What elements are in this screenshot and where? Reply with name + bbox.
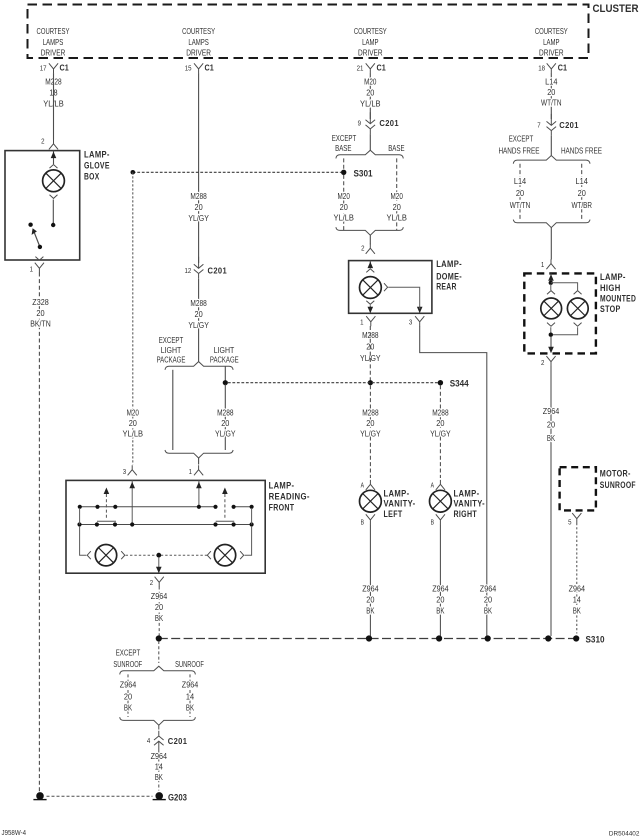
stop left bulb fork — [547, 291, 555, 295]
wire except base below splice — [343, 175, 345, 231]
svg-text:20: 20 — [221, 418, 229, 428]
svg-text:1: 1 — [360, 320, 363, 327]
svg-text:C201: C201 — [208, 265, 228, 275]
wire L14 vertical — [550, 73, 552, 119]
wire S344 horizontal — [228, 382, 438, 384]
svg-text:RIGHT: RIGHT — [454, 509, 478, 519]
svg-text:Z964: Z964 — [432, 584, 449, 594]
svg-text:LIGHT: LIGHT — [214, 345, 235, 355]
svg-text:WT/BR: WT/BR — [571, 200, 592, 210]
svg-text:12: 12 — [185, 268, 192, 275]
svg-text:20: 20 — [366, 88, 374, 98]
svg-text:LAMP: LAMP — [362, 37, 379, 47]
node dome on S344 — [368, 380, 373, 385]
svg-text:BOX: BOX — [84, 172, 100, 182]
svg-text:CLUSTER: CLUSTER — [593, 3, 639, 15]
svg-text:15: 15 — [185, 65, 192, 72]
lamp glove box outline — [5, 151, 80, 260]
svg-text:BK: BK — [155, 772, 163, 782]
glove box switch contact right — [51, 223, 55, 227]
svg-text:MOTOR-: MOTOR- — [600, 468, 631, 478]
reading right bulb left fork — [207, 551, 211, 559]
svg-text:B: B — [431, 519, 435, 526]
svg-text:YL/GY: YL/GY — [215, 429, 236, 439]
svg-text:DRIVER: DRIVER — [358, 48, 383, 58]
wire hands free branch — [581, 164, 583, 220]
svg-text:BK: BK — [155, 613, 163, 623]
reading left bulb — [95, 545, 116, 566]
svg-text:C1: C1 — [60, 63, 70, 72]
svg-text:C1: C1 — [377, 63, 387, 72]
svg-text:20: 20 — [393, 202, 401, 212]
svg-text:20: 20 — [36, 308, 44, 318]
svg-text:YL/LB: YL/LB — [123, 429, 144, 439]
splice S301 — [341, 170, 346, 175]
svg-text:LAMP-: LAMP- — [384, 489, 410, 499]
wire M20 vertical — [369, 73, 371, 119]
svg-text:1: 1 — [30, 267, 33, 274]
glove box exit fork — [35, 257, 43, 261]
svg-text:BK: BK — [547, 433, 555, 443]
stop right bulb — [567, 298, 588, 319]
wire M288 vertical lower — [198, 279, 200, 362]
reading switch bottom row contacts — [77, 522, 81, 526]
svg-text:YL/GY: YL/GY — [188, 320, 209, 330]
node S310 vanity left — [366, 635, 372, 641]
svg-text:Z964: Z964 — [182, 680, 199, 690]
reading ground node — [156, 553, 161, 558]
wire except light package branch — [172, 370, 174, 450]
hands free merge brace — [513, 220, 590, 228]
reading switch bottom row wire — [80, 524, 252, 526]
cluster module box (dashed) — [28, 5, 589, 59]
svg-text:20: 20 — [516, 188, 524, 198]
reading left wiper — [104, 488, 110, 495]
wire light package branch upper — [224, 366, 226, 381]
stop branch bottom wire — [551, 327, 578, 335]
glove box switch blade — [34, 232, 40, 247]
dome entry wire — [369, 261, 371, 268]
svg-text:18: 18 — [538, 65, 545, 72]
svg-text:BK: BK — [186, 702, 194, 712]
wire Z328 vertical — [38, 273, 40, 793]
lamp dome rear outline — [349, 261, 432, 314]
svg-text:Z328: Z328 — [32, 297, 49, 307]
svg-text:A: A — [431, 483, 435, 490]
svg-text:BASE: BASE — [388, 143, 405, 153]
base merge brace — [336, 227, 403, 235]
svg-text:LEFT: LEFT — [384, 509, 403, 519]
wire M288 branch vertical — [224, 384, 226, 450]
svg-text:REAR: REAR — [436, 282, 457, 292]
svg-text:20: 20 — [366, 595, 374, 605]
glove box lamp top fork — [50, 165, 58, 169]
svg-text:EXCEPT: EXCEPT — [159, 335, 184, 345]
svg-text:2: 2 — [361, 246, 364, 253]
svg-text:LAMP: LAMP — [543, 37, 560, 47]
svg-text:DRIVER: DRIVER — [41, 48, 66, 58]
wire M20 to reading lamp vertical — [132, 172, 134, 464]
svg-text:20: 20 — [155, 602, 163, 612]
svg-text:HIGH: HIGH — [600, 283, 621, 293]
light package split brace — [165, 362, 233, 370]
stop branch top wire — [551, 283, 578, 290]
svg-text:DRIVER: DRIVER — [539, 48, 564, 58]
wire to stop lamp pin 1 — [550, 228, 552, 260]
wire S344 to vanity right — [439, 385, 441, 478]
svg-text:LAMP-: LAMP- — [454, 489, 480, 499]
wire M288 vertical upper — [198, 73, 200, 263]
svg-text:14: 14 — [155, 762, 163, 772]
ground glove box — [36, 792, 44, 800]
wire to reading lamp pin 1 — [198, 458, 200, 465]
svg-text:HANDS FREE: HANDS FREE — [561, 146, 602, 156]
svg-text:LAMP-: LAMP- — [84, 150, 110, 160]
lamp reading front outline — [66, 480, 265, 573]
svg-text:YL/GY: YL/GY — [188, 213, 209, 223]
svg-text:2: 2 — [541, 360, 544, 367]
svg-text:B: B — [361, 519, 365, 526]
node S310 stop — [545, 635, 551, 641]
svg-text:EXCEPT: EXCEPT — [332, 133, 357, 143]
glove box bulb — [43, 170, 65, 192]
stop right bulb bottom fork — [574, 323, 582, 327]
dome lamp top fork — [366, 269, 374, 273]
svg-text:20: 20 — [436, 595, 444, 605]
wire M228 vertical — [53, 73, 55, 140]
svg-text:DRIVER: DRIVER — [186, 48, 211, 58]
wire base branch — [396, 158, 398, 230]
wire Z964 vanity left — [369, 524, 371, 636]
node light package on S344 — [223, 380, 228, 385]
svg-text:LAMP-: LAMP- — [269, 480, 295, 490]
svg-text:BK: BK — [573, 606, 581, 616]
wire below C201 pin 7 — [550, 136, 552, 156]
svg-text:G203: G203 — [168, 792, 187, 803]
node S310 dome — [485, 635, 491, 641]
stop left bulb — [541, 298, 562, 319]
lamp high mounted stop outline — [524, 273, 596, 353]
svg-text:14: 14 — [573, 595, 581, 605]
svg-text:9: 9 — [358, 121, 361, 128]
dome exit wire left — [369, 305, 371, 308]
vanity left bulb — [360, 490, 382, 512]
wire below C201 pin 9 — [369, 134, 371, 150]
svg-text:LAMP-: LAMP- — [600, 272, 626, 282]
svg-text:WT/TN: WT/TN — [510, 200, 531, 210]
svg-text:SUNROOF: SUNROOF — [600, 480, 636, 490]
svg-text:Z964: Z964 — [120, 680, 137, 690]
svg-text:YL/LB: YL/LB — [360, 99, 381, 109]
wire to dome lamp pin 2 — [369, 235, 371, 244]
splice S344 — [438, 380, 443, 385]
svg-text:EXCEPT: EXCEPT — [509, 134, 534, 144]
svg-text:1: 1 — [541, 262, 544, 269]
stop entry wire — [550, 273, 552, 281]
svg-text:C201: C201 — [379, 118, 399, 128]
svg-text:S310: S310 — [586, 635, 605, 646]
svg-text:STOP: STOP — [600, 304, 621, 314]
vanity right bulb — [430, 490, 452, 512]
svg-text:MOUNTED: MOUNTED — [600, 294, 636, 304]
svg-text:3: 3 — [409, 320, 412, 327]
light package merge brace — [165, 450, 233, 458]
svg-text:YL/LB: YL/LB — [333, 213, 354, 223]
svg-text:M288: M288 — [217, 407, 234, 417]
stop junction top — [549, 281, 553, 285]
svg-text:17: 17 — [40, 65, 47, 72]
dome bulb — [360, 277, 382, 299]
wire reading to S310 — [158, 587, 160, 637]
svg-text:20: 20 — [340, 202, 348, 212]
wire except sunroof branch — [127, 674, 129, 717]
svg-text:M20: M20 — [127, 407, 139, 417]
ground G203 — [155, 792, 163, 800]
svg-text:7: 7 — [537, 122, 540, 129]
svg-text:LAMPS: LAMPS — [43, 37, 64, 47]
svg-text:YL/GY: YL/GY — [430, 429, 451, 439]
svg-text:YL/GY: YL/GY — [360, 429, 381, 439]
reading ground exit wire — [158, 557, 160, 567]
svg-text:20: 20 — [547, 420, 555, 430]
svg-text:FRONT: FRONT — [269, 503, 295, 513]
svg-text:C201: C201 — [168, 736, 188, 746]
svg-text:Z964: Z964 — [543, 406, 560, 416]
svg-text:M20: M20 — [338, 191, 350, 201]
svg-text:BASE: BASE — [335, 143, 352, 153]
svg-text:20: 20 — [195, 309, 203, 319]
svg-text:20: 20 — [484, 595, 492, 605]
svg-text:C1: C1 — [558, 63, 568, 72]
svg-text:VANITY-: VANITY- — [384, 499, 416, 509]
svg-text:LAMP-: LAMP- — [436, 259, 462, 269]
wire Z964 vanity right — [439, 524, 441, 636]
wire to C201 pin 4 — [158, 725, 160, 729]
dome lamp right fork — [384, 283, 388, 291]
svg-text:COURTESY: COURTESY — [182, 26, 215, 36]
glove box switch blade pivot — [38, 245, 42, 249]
svg-text:PACKAGE: PACKAGE — [157, 354, 186, 364]
reading right bulb right fork — [240, 551, 244, 559]
reading entry wire pin 1 — [198, 480, 200, 506]
svg-text:M288: M288 — [190, 191, 207, 201]
svg-text:20: 20 — [366, 418, 374, 428]
motor sunroof outline — [560, 467, 596, 510]
wire dome pin1 to S344 — [369, 326, 371, 381]
svg-text:LAMPS: LAMPS — [188, 37, 209, 47]
glove box lamp bottom fork — [50, 195, 58, 199]
splice S310 — [573, 635, 579, 641]
svg-text:L14: L14 — [576, 176, 589, 186]
svg-text:LIGHT: LIGHT — [161, 345, 182, 355]
svg-text:Z964: Z964 — [362, 584, 379, 594]
glove box lamp to switch wire — [52, 200, 54, 225]
wire S310 down stub — [158, 641, 160, 663]
svg-text:BK: BK — [436, 606, 444, 616]
wire S310 horizontal — [159, 638, 576, 640]
svg-text:YL/LB: YL/LB — [386, 213, 407, 223]
reading lamps middle wire — [126, 554, 207, 556]
wire between grounds — [47, 795, 153, 797]
svg-text:M20: M20 — [364, 76, 376, 86]
wire Z964 from dome pin 3 — [420, 326, 487, 636]
svg-text:SUNROOF: SUNROOF — [113, 659, 142, 669]
base split brace — [336, 150, 403, 158]
svg-text:A: A — [361, 483, 365, 490]
svg-text:DOME-: DOME- — [436, 271, 462, 281]
svg-text:SUNROOF: SUNROOF — [175, 659, 204, 669]
reading switch top row contacts — [78, 505, 82, 509]
reading right side wire — [245, 508, 252, 555]
svg-text:J958W-4: J958W-4 — [2, 830, 27, 837]
sunroof merge brace — [120, 717, 196, 725]
svg-text:BK: BK — [484, 606, 492, 616]
svg-text:Z964: Z964 — [569, 584, 586, 594]
svg-text:GLOVE: GLOVE — [84, 161, 110, 171]
svg-text:S344: S344 — [450, 379, 470, 390]
glove box entry wire — [53, 151, 55, 164]
svg-text:20: 20 — [578, 188, 586, 198]
svg-text:HANDS FREE: HANDS FREE — [498, 146, 539, 156]
svg-text:DR504402: DR504402 — [609, 831, 640, 838]
svg-text:READING-: READING- — [269, 491, 310, 501]
stop junction bottom — [549, 333, 553, 337]
wire Z964 sunroof — [576, 523, 578, 634]
svg-text:3: 3 — [123, 469, 126, 476]
node S310 vanity right — [436, 635, 442, 641]
svg-text:PACKAGE: PACKAGE — [210, 354, 239, 364]
wire S344 to vanity left — [369, 385, 371, 478]
wire except base branch stub — [343, 158, 345, 169]
svg-text:COURTESY: COURTESY — [37, 26, 70, 36]
stop exit wire — [550, 337, 552, 348]
reading right wiper — [222, 488, 228, 495]
svg-text:Z964: Z964 — [480, 584, 497, 594]
svg-text:21: 21 — [357, 65, 364, 72]
svg-text:BK: BK — [366, 606, 374, 616]
node S310 reading — [156, 635, 162, 641]
reading switch top row wire — [80, 506, 252, 508]
svg-text:C201: C201 — [559, 120, 579, 130]
svg-text:Z964: Z964 — [151, 751, 168, 761]
glove box switch contact left — [28, 223, 32, 227]
sunroof split brace — [120, 666, 196, 674]
svg-text:WT/TN: WT/TN — [541, 97, 562, 107]
dome exit arrow right — [417, 307, 423, 314]
svg-text:L14: L14 — [514, 176, 527, 186]
svg-text:4: 4 — [147, 738, 150, 745]
svg-text:Z964: Z964 — [151, 591, 168, 601]
svg-text:VANITY-: VANITY- — [454, 499, 486, 509]
svg-text:20: 20 — [547, 87, 555, 97]
wire Z964 below C201 — [158, 753, 160, 790]
reading left bulb right fork — [121, 551, 125, 559]
svg-text:BK: BK — [124, 702, 132, 712]
dome lamp bottom fork — [366, 301, 374, 305]
svg-text:2: 2 — [41, 139, 44, 146]
svg-text:1: 1 — [189, 469, 192, 476]
svg-text:L14: L14 — [545, 77, 558, 87]
svg-text:20: 20 — [124, 691, 132, 701]
svg-text:C1: C1 — [205, 63, 215, 72]
wire S301 horizontal — [133, 171, 341, 173]
node S301 branch corner — [131, 170, 136, 175]
stop left bulb bottom fork — [547, 323, 555, 327]
wire Z964 from stop lamp — [550, 366, 552, 636]
reading left side wire — [80, 508, 87, 555]
svg-text:M288: M288 — [432, 407, 449, 417]
svg-text:EXCEPT: EXCEPT — [116, 647, 141, 657]
svg-text:COURTESY: COURTESY — [535, 26, 568, 36]
svg-text:M288: M288 — [190, 298, 207, 308]
svg-text:S301: S301 — [354, 168, 374, 179]
stop right bulb fork — [574, 291, 582, 295]
reading right bulb — [214, 545, 235, 566]
svg-text:14: 14 — [186, 691, 194, 701]
svg-text:2: 2 — [150, 580, 153, 587]
svg-text:COURTESY: COURTESY — [354, 26, 387, 36]
wire sunroof branch — [189, 674, 191, 717]
wire except hands free branch — [519, 164, 521, 220]
dome lamp feed-through wire — [388, 287, 420, 306]
svg-text:M20: M20 — [391, 191, 403, 201]
svg-text:BK/TN: BK/TN — [30, 318, 51, 328]
svg-text:5: 5 — [568, 520, 571, 527]
hands free split brace — [513, 156, 590, 164]
svg-text:20: 20 — [129, 418, 137, 428]
reading entry wire pin 3 — [131, 480, 133, 524]
svg-text:20: 20 — [436, 418, 444, 428]
svg-text:M288: M288 — [362, 407, 379, 417]
reading left bulb fork — [87, 551, 91, 559]
svg-text:20: 20 — [195, 202, 203, 212]
